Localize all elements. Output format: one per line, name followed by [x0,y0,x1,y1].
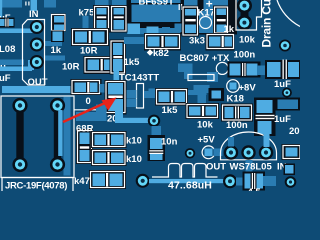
wire bright 20k to via [115,111,152,123]
pads dumbbell left pair [12,98,27,172]
svg-text:k47: k47 [74,176,90,187]
pad U1-1 [30,20,44,34]
wire to U1 pin1 [0,29,33,34]
svg-text:1k5: 1k5 [124,57,141,68]
label 1k second [224,24,235,35]
svg-text:10R: 10R [62,62,80,73]
svg-text:+8V: +8V [239,83,257,94]
label OUT second [206,162,226,173]
board background [0,0,300,191]
transistor pad dark [209,88,225,101]
regulator U2 WS78L05 outline [221,132,277,160]
plus mark [206,1,212,7]
silkscreen arc top-right corner [277,0,300,27]
resistor R-20k vertical [105,80,127,115]
via mid [148,115,160,127]
resistor R-10k-top horizontal [206,33,235,51]
label 10k top [239,35,256,46]
label BC807 +TX [180,53,231,64]
svg-text:OUT: OUT [206,162,226,173]
label 10n [161,137,178,148]
wire copper band mid channel [128,24,171,36]
pad bottom through-hole [223,174,237,188]
label +5V [198,135,216,146]
via bottom right [285,176,297,188]
pad U2-2 [241,145,255,159]
svg-text:10k: 10k [239,35,256,46]
label 1uF first [274,79,291,90]
label k82 [153,48,169,59]
label WS78L05 IN [230,162,287,173]
label 100n first [234,50,256,61]
label 3k3 [189,36,205,47]
label 68R [76,124,94,135]
capacitor 100n [228,62,261,78]
label k75 [79,8,96,19]
capacitor marks top [25,2,29,6]
wire copper from U1 pin2 right [45,41,63,46]
label 0 [86,96,91,107]
wire copper pad2 down [246,160,253,172]
regulator U1 WS78L08 outline [23,20,45,86]
capacitor bottom right [243,172,266,191]
wire copper between caps [257,66,268,76]
label uF (cut) [0,13,11,24]
wire copper +5V to regulator [214,149,223,157]
silkscreen line right of box [74,109,106,111]
pad square below R-1k [51,31,64,43]
capacitor marks right of Q1 [179,4,183,10]
red airwire arrow [63,98,117,123]
label 20k [107,114,124,125]
svg-text:BC807 +TX: BC807 +TX [180,53,231,64]
svg-text:K18: K18 [227,94,244,105]
resistor R-k82 horizontal [144,33,181,51]
svg-text:1uF: 1uF [274,114,291,125]
wire copper stub right of R-0 [100,84,108,93]
test point circle white [216,62,228,74]
wire bright 1k5 to 20k [114,71,120,84]
via right [279,40,291,52]
wire copper right edge [276,98,301,111]
svg-text:47..68uH: 47..68uH [168,180,212,192]
pads drain dual vertical [237,0,252,30]
resistor R-1k5 vertical [110,40,127,75]
wire copper left mid [0,60,24,66]
wire copper T left [178,64,193,80]
wire copper plus shape [194,85,210,103]
wire to U1 pin3 [0,60,34,71]
svg-text:10R: 10R [80,46,98,57]
label 47..68uH [168,180,212,192]
wire copper stub above R-B [112,0,127,7]
svg-text:WS78L05: WS78L05 [230,162,273,173]
svg-text:k10: k10 [126,136,142,147]
label k47 [74,176,90,187]
svg-text:uF: uF [0,73,11,84]
svg-text:10k: 10k [197,120,214,131]
resistor R-0 horizontal (0 ohm) [71,79,102,95]
pour separation channels [126,0,237,35]
label L08 (cut WS78L08) [0,44,15,55]
resistor R-1k5b horizontal [155,88,188,106]
copper pour top-right zone [127,0,237,34]
capacitor K18 [221,104,253,122]
svg-text:10n: 10n [161,137,178,148]
capacitor C-left2 marks [1,60,6,70]
component right edge [282,144,301,160]
wire bright horizontal above JRC box [2,86,71,93]
label OUT [28,77,48,88]
svg-text:1k: 1k [51,45,62,56]
wire copper right of cap [263,176,276,186]
capacitor C-left1 [0,18,15,28]
label 4.5 (cut) [248,187,262,198]
wire copper pad1 up [228,137,234,147]
jumper vertical silkscreen box [137,84,144,109]
resistor R-A vertical (k75) [93,5,110,33]
capacitor 10n vertical [148,135,166,161]
svg-text:IN: IN [29,9,39,20]
label 100n second [226,120,248,131]
wire copper band middle [149,89,207,96]
silkscreen bracket around drain pads [236,0,262,30]
svg-text:Drain Cu: Drain Cu [259,0,273,48]
jumper silkscreen narrow box [188,75,214,81]
capacitor 1uF second vertical [254,98,276,137]
test point +8V [227,80,240,93]
label IN [29,9,39,20]
svg-text:1k5: 1k5 [162,105,179,116]
label 1k [51,45,62,56]
test point +5V circle [202,146,215,159]
wire bright down from via [58,110,62,156]
svg-text:+5V: +5V [198,135,216,146]
label BFG591 (cut top) [139,0,175,8]
svg-text:68R: 68R [76,124,94,135]
pad U1-2 [30,38,44,52]
svg-text:L08: L08 [0,44,15,55]
capacitor 1uF first [265,60,300,80]
wire copper vertical in box [64,97,71,176]
copper block top mid-left [44,0,56,8]
resistor R-F vertical [213,6,229,36]
label uF second (cut) [0,73,11,84]
resistor R-E vertical [182,6,200,37]
pad U2-1 [224,145,238,159]
pads dumbbell right pair [50,98,65,172]
pad square right [284,164,296,176]
inductor L1 coil [152,164,218,178]
label K18 [227,94,244,105]
label 1k5 second [162,105,179,116]
resistor R-B vertical [110,5,128,33]
svg-text:4.5: 4.5 [248,187,262,191]
label 1k5 [124,57,141,68]
wire to pin IN [31,0,38,11]
svg-text:100n: 100n [226,120,248,131]
label K17 [198,8,215,19]
wire copper via down [152,126,162,137]
label +8V [239,83,257,94]
diamond mark [147,49,154,56]
label TC143TT [119,73,159,84]
svg-text:20R: 20R [289,126,300,137]
svg-text:k10: k10 [126,154,142,165]
wire bright 1uF to pad3 [264,134,270,147]
silkscreen box JRC [1,96,74,178]
wire copper from test point [207,72,218,82]
resistor R-k10b horizontal [91,149,127,166]
svg-text:3k3: 3k3 [189,36,205,47]
svg-text:JRC-19F(4078): JRC-19F(4078) [5,181,67,192]
via left of +5V [185,148,195,158]
label k10 second [126,154,142,165]
svg-text:k82: k82 [153,48,169,59]
resistor R-10k-mid horizontal [186,103,220,119]
copper block top-left [0,0,22,8]
pad U1-3 [30,55,44,69]
wire copper to cap [236,178,247,186]
wire copper from U1 pin3 right [45,56,66,61]
label Drain Cu (rotated) [259,0,273,48]
resistor R-1k vertical [51,14,66,32]
svg-text:0: 0 [86,96,91,107]
label 1uF second [274,114,291,125]
label 10k mid [197,120,214,131]
wire copper under line [76,105,107,122]
resistor R-k10a horizontal [91,131,127,148]
label strip JRC-19F(4078) [2,178,73,193]
wire bright left edge [0,0,2,26]
svg-text:OUT: OUT [28,77,48,88]
resistor R-k47 horizontal [89,170,126,189]
svg-text:BF6S9T: BF6S9T [139,0,175,8]
via small top [282,88,292,98]
resistor R-68R vertical [76,129,93,164]
pad U2-3 [259,145,273,159]
transistor Q1 BFG591 block [130,3,182,24]
resistor R-D horizontal (10R) [84,56,123,74]
svg-text:100n: 100n [234,50,256,61]
label 10R first [80,46,98,57]
label 10R second [62,62,80,73]
trimmer circle outline [200,17,212,29]
label 20R right edge (cut) [289,126,307,137]
wire copper stubs at vertical jumper [123,90,156,107]
wire bright long bottom [149,179,224,183]
wire copper stub below Q1 [175,24,183,33]
resistor R-C horizontal (10R) [71,28,109,46]
wire copper left of R-A [83,16,89,34]
wire copper stub above R-A [95,0,109,7]
label k10 first [126,136,142,147]
wire copper band to 3k3 [124,37,147,44]
pad k47 right donut [136,174,150,188]
